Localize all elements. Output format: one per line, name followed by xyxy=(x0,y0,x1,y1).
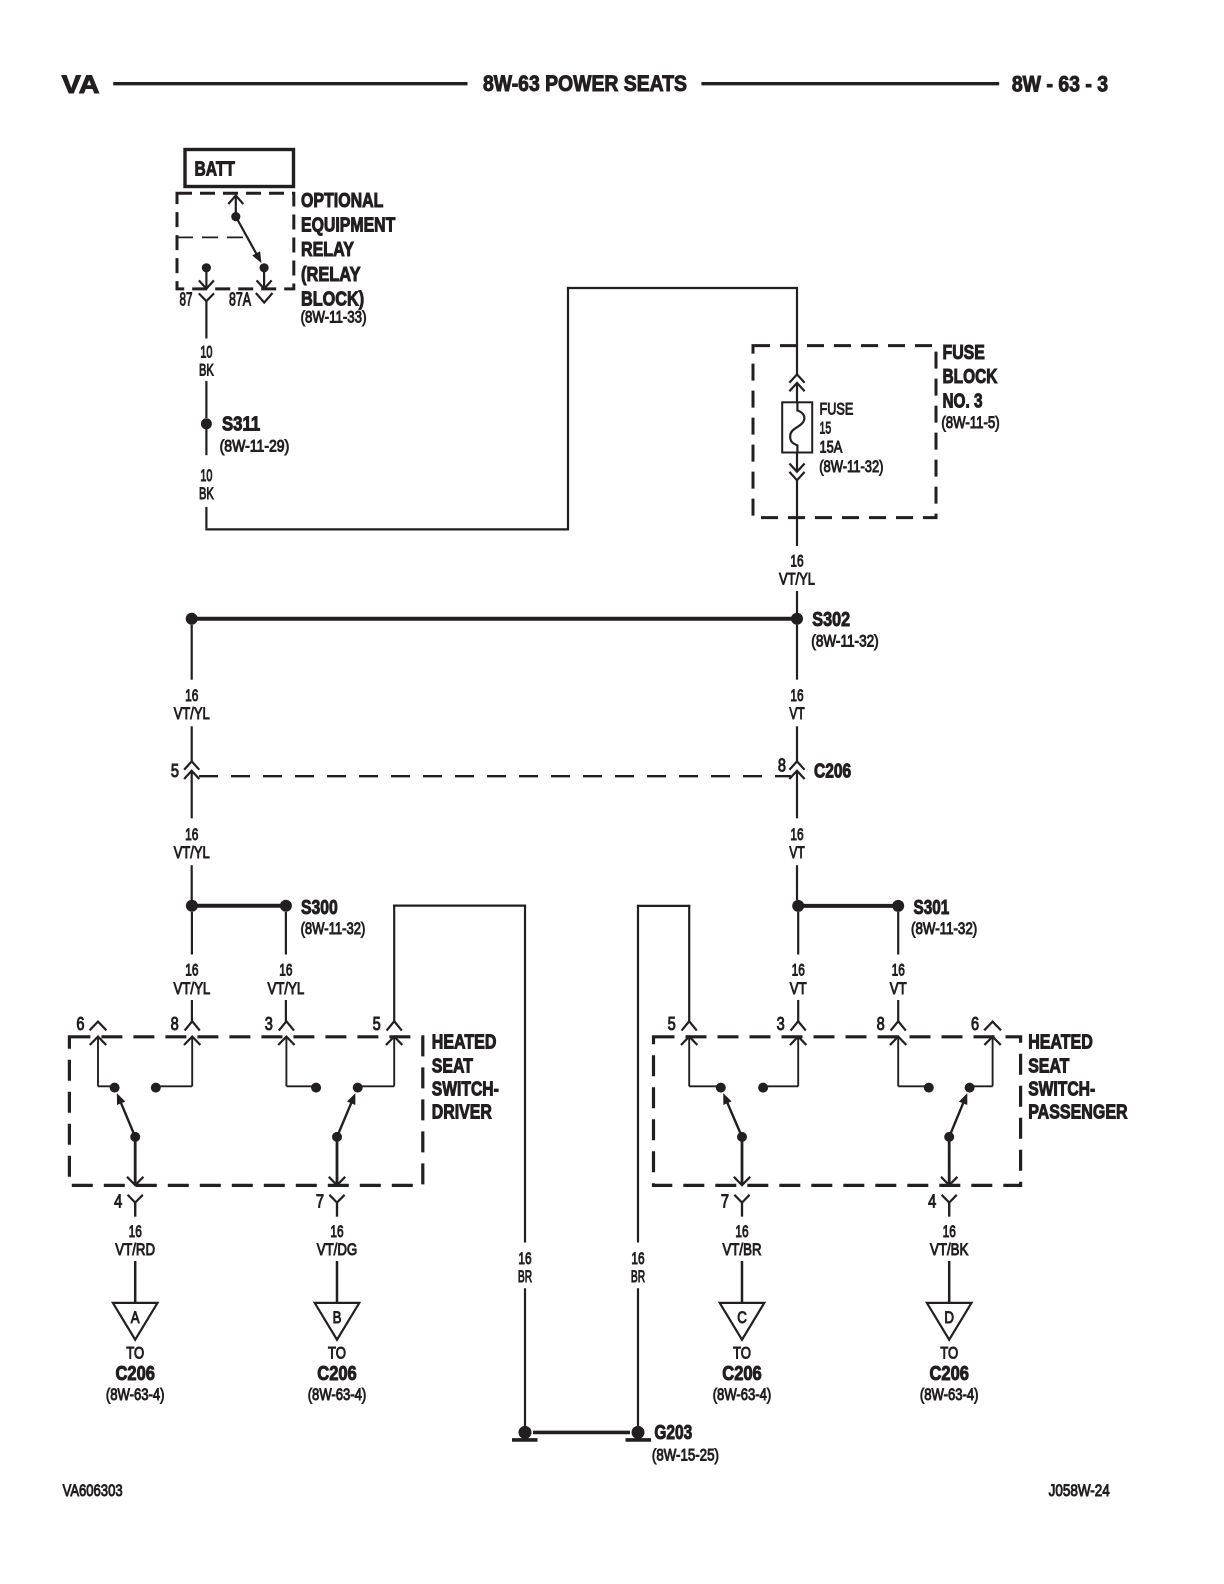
driver left switch pole dot xyxy=(130,1132,140,1142)
wire 10 BK upper segment xyxy=(205,314,207,339)
fuse F15 labels xyxy=(819,399,883,476)
svg-text:16: 16 xyxy=(790,825,803,844)
ground G203 right bar xyxy=(626,1438,652,1442)
pin 4 connector (passenger switch output B) xyxy=(941,1177,957,1217)
svg-text:VT: VT xyxy=(789,704,804,723)
passenger left switch wiper arm xyxy=(723,1093,742,1137)
ground G203 left dot xyxy=(519,1426,532,1439)
passenger right switch contact dot B xyxy=(965,1083,975,1093)
driver right switch output stem xyxy=(358,1037,395,1087)
svg-text:(8W-63-4): (8W-63-4) xyxy=(713,1385,772,1404)
svg-text:(8W-11-32): (8W-11-32) xyxy=(301,919,366,938)
svg-text:VT/YL: VT/YL xyxy=(174,704,210,723)
wire label 10 BK (upper) xyxy=(199,342,214,379)
svg-text:(RELAY: (RELAY xyxy=(301,264,361,286)
heated seat switch driver box (dashed outline) xyxy=(69,1037,422,1186)
pin 8 connector (passenger switch) xyxy=(890,1021,906,1045)
svg-text:8: 8 xyxy=(778,756,786,776)
wire label 16 BR (right) xyxy=(631,1249,645,1286)
svg-text:RELAY: RELAY xyxy=(301,239,354,261)
off-page triangle C xyxy=(720,1303,765,1340)
svg-text:C206: C206 xyxy=(930,1363,969,1385)
svg-text:VT/BR: VT/BR xyxy=(722,1240,761,1259)
driver left switch wiper arm xyxy=(117,1093,135,1137)
svg-text:DRIVER: DRIVER xyxy=(432,1101,492,1123)
fuse F15 body xyxy=(782,402,812,452)
fuse output connector chevrons xyxy=(789,464,804,481)
ground G203 left bar xyxy=(512,1438,538,1442)
passenger right switch input stem xyxy=(898,1037,929,1087)
svg-text:HEATED: HEATED xyxy=(432,1032,497,1054)
label TO C206 (driver pin 7) xyxy=(308,1344,367,1405)
svg-text:8W-63 POWER SEATS: 8W-63 POWER SEATS xyxy=(483,71,687,96)
svg-text:J058W-24: J058W-24 xyxy=(1049,1481,1110,1500)
svg-text:D: D xyxy=(944,1308,954,1327)
svg-text:C206: C206 xyxy=(814,760,851,782)
svg-text:7: 7 xyxy=(721,1192,729,1212)
wire label 16 VT/YL (driver pin 8 feed) xyxy=(174,961,211,998)
S302 dot left xyxy=(186,613,198,625)
C206 right chevrons pin 8 xyxy=(789,761,804,779)
passenger left switch pole stem to pin xyxy=(741,1141,744,1184)
svg-text:BR: BR xyxy=(518,1267,532,1286)
header rule left xyxy=(113,82,467,85)
svg-text:SWITCH-: SWITCH- xyxy=(1028,1079,1095,1101)
svg-text:5: 5 xyxy=(668,1014,676,1034)
driver right switch contact dot B xyxy=(353,1083,363,1093)
svg-text:16: 16 xyxy=(330,1222,343,1241)
svg-text:7: 7 xyxy=(316,1192,324,1212)
off-page triangle B xyxy=(315,1303,360,1340)
driver left switch output stem xyxy=(156,1037,192,1087)
relay switch arm xyxy=(236,217,262,263)
svg-text:10: 10 xyxy=(200,342,212,361)
S301 dot right xyxy=(892,900,904,912)
relay coil divider (dashed) xyxy=(177,236,247,238)
wire label 16 VT/BR (passenger pin 7) xyxy=(722,1222,761,1259)
svg-text:OPTIONAL: OPTIONAL xyxy=(301,190,383,212)
svg-text:G203: G203 xyxy=(654,1422,692,1444)
svg-text:3: 3 xyxy=(777,1014,785,1034)
wire into connector (driver pin 8 feed) xyxy=(191,1000,193,1021)
svg-text:S300: S300 xyxy=(301,897,338,919)
wire into triangle (driver pin 7) xyxy=(336,1261,339,1303)
wire below splice at x=798.2 (passenger pin 3 feed) xyxy=(797,912,799,955)
svg-text:16: 16 xyxy=(792,961,805,980)
svg-text:4: 4 xyxy=(928,1192,936,1212)
driver left switch contact dot A xyxy=(110,1083,120,1093)
svg-text:VT: VT xyxy=(890,979,907,998)
svg-text:(8W-11-32): (8W-11-32) xyxy=(911,919,977,938)
svg-text:FUSE: FUSE xyxy=(943,342,985,364)
svg-text:TO: TO xyxy=(126,1344,144,1363)
relay box (dashed outline) xyxy=(177,193,294,289)
wire label 16 VT/YL (left above C206) xyxy=(174,686,210,723)
svg-text:87: 87 xyxy=(180,290,193,310)
heated seat switch passenger box (dashed outline) xyxy=(654,1037,1021,1186)
svg-text:(8W-15-25): (8W-15-25) xyxy=(652,1445,719,1464)
wire into S301 xyxy=(796,865,798,900)
ground G203 right dot xyxy=(632,1426,645,1439)
wire C206 to label left xyxy=(191,771,193,819)
svg-text:BLOCK: BLOCK xyxy=(943,366,998,388)
svg-text:VA606303: VA606303 xyxy=(63,1481,123,1500)
wire into C206 right xyxy=(796,726,798,761)
wire into triangle (passenger pin 4) xyxy=(948,1261,951,1303)
driver left switch contact dot B xyxy=(151,1083,161,1093)
svg-text:VA: VA xyxy=(62,71,100,99)
label TO C206 (passenger pin 4) xyxy=(920,1344,979,1405)
svg-text:PASSENGER: PASSENGER xyxy=(1028,1101,1128,1123)
passenger left switch contact dot A xyxy=(716,1083,726,1093)
wire into S302 xyxy=(796,591,798,613)
wire 16 BR left to ground xyxy=(524,1288,526,1427)
C206 left chevrons pin 5 xyxy=(184,761,199,779)
wire label 16 VT (right above C206) xyxy=(789,686,804,723)
driver right switch pole dot xyxy=(332,1132,342,1142)
S300 dot right xyxy=(280,900,292,912)
passenger right switch pole dot xyxy=(944,1132,954,1142)
svg-text:15: 15 xyxy=(820,418,832,437)
svg-text:VT/YL: VT/YL xyxy=(174,843,210,862)
C206 dashed connector line xyxy=(199,775,791,777)
passenger right switch pole stem to pin xyxy=(948,1141,951,1184)
svg-text:S301: S301 xyxy=(914,897,950,919)
relay pin 87A connector fork xyxy=(256,293,273,303)
wire into triangle (driver pin 4) xyxy=(134,1261,137,1303)
svg-text:C206: C206 xyxy=(722,1363,761,1385)
fuse block box (dashed outline) xyxy=(753,346,936,518)
wire into S300 xyxy=(191,865,193,900)
off-page triangle A xyxy=(113,1303,158,1340)
wire into S311 xyxy=(205,381,207,418)
heated seat switch driver label xyxy=(432,1032,499,1124)
relay pin 87 stem and arrow xyxy=(199,268,214,289)
svg-text:C206: C206 xyxy=(317,1363,356,1385)
svg-text:16: 16 xyxy=(790,686,803,705)
fuse block label xyxy=(941,342,999,432)
svg-text:A: A xyxy=(131,1308,140,1327)
svg-text:16: 16 xyxy=(892,961,905,980)
svg-text:16: 16 xyxy=(185,961,198,980)
svg-text:87A: 87A xyxy=(229,290,251,310)
header rule right xyxy=(701,82,999,85)
wire label 16 VT/YL (driver pin 3 feed) xyxy=(268,961,305,998)
svg-text:S311: S311 xyxy=(222,414,260,436)
wire below splice at x=285.9 (driver pin 3 feed) xyxy=(285,912,287,955)
svg-text:(8W-63-4): (8W-63-4) xyxy=(920,1385,979,1404)
wire run to fuse block xyxy=(205,287,797,531)
svg-text:FUSE: FUSE xyxy=(820,399,854,418)
wire below pin (driver pin 7) xyxy=(336,1203,338,1217)
svg-text:VT/YL: VT/YL xyxy=(268,979,305,998)
svg-text:BR: BR xyxy=(631,1267,645,1286)
driver right switch input stem xyxy=(286,1037,316,1087)
svg-text:BATT: BATT xyxy=(195,159,235,181)
passenger right switch output stem xyxy=(970,1037,993,1087)
driver right switch contact dot A xyxy=(311,1083,321,1093)
fuse input connector chevrons xyxy=(789,374,804,391)
splice S300 bus xyxy=(192,904,286,908)
wire label 16 VT/YL (left below C206) xyxy=(174,825,210,862)
pin 5 connector (driver switch) xyxy=(386,1021,402,1045)
driver left switch pole stem to pin xyxy=(134,1141,137,1184)
wire into triangle (passenger pin 7) xyxy=(741,1261,744,1303)
wire into connector (passenger pin 8 feed) xyxy=(897,1000,899,1021)
relay contact dot 87A side xyxy=(260,263,269,272)
svg-text:TO: TO xyxy=(733,1344,751,1363)
ground G203 bus xyxy=(533,1431,630,1435)
relay block description text xyxy=(301,190,396,327)
wire C206 to label right xyxy=(796,771,798,819)
label TO C206 (passenger pin 7) xyxy=(713,1344,772,1405)
svg-text:VT/DG: VT/DG xyxy=(317,1240,358,1259)
svg-text:8: 8 xyxy=(877,1014,885,1034)
svg-text:16: 16 xyxy=(185,825,198,844)
pin 7 connector (driver switch output B) xyxy=(329,1177,345,1217)
svg-text:VT/RD: VT/RD xyxy=(115,1240,155,1259)
svg-text:(8W-11-32): (8W-11-32) xyxy=(811,632,878,651)
wire label 16 VT (right below C206) xyxy=(789,825,804,862)
passenger left switch output stem xyxy=(763,1037,798,1087)
wire label 10 BK (lower) xyxy=(199,466,214,503)
svg-text:SEAT: SEAT xyxy=(1028,1055,1069,1077)
svg-text:10: 10 xyxy=(200,466,212,485)
svg-text:8: 8 xyxy=(171,1014,179,1034)
S300 dot left xyxy=(186,900,198,912)
wire 16 BR right to ground xyxy=(637,1288,639,1427)
svg-text:4: 4 xyxy=(114,1192,122,1212)
svg-text:16: 16 xyxy=(943,1222,956,1241)
wire fuse to output connector xyxy=(796,453,798,472)
wire 10 BK bottom segment xyxy=(205,507,207,528)
pin 6 connector (driver switch) xyxy=(90,1022,107,1045)
svg-text:TO: TO xyxy=(940,1344,958,1363)
pin 7 connector (passenger switch output A) xyxy=(734,1177,750,1217)
relay common dot (pin 30) xyxy=(231,212,240,221)
svg-text:VT/YL: VT/YL xyxy=(174,979,211,998)
svg-text:VT: VT xyxy=(789,843,804,862)
wire label 16 VT (passenger pin 3 feed) xyxy=(790,961,807,998)
svg-text:SWITCH-: SWITCH- xyxy=(432,1079,499,1101)
svg-text:16: 16 xyxy=(185,686,198,705)
splice S311 dot xyxy=(201,418,212,429)
svg-text:16: 16 xyxy=(129,1222,142,1241)
svg-text:(8W-11-33): (8W-11-33) xyxy=(301,308,367,327)
wire into C206 left xyxy=(191,726,193,761)
svg-text:6: 6 xyxy=(76,1014,84,1034)
svg-text:15A: 15A xyxy=(820,438,843,457)
wire label 16 VT/YL (fuse output) xyxy=(779,551,815,588)
svg-text:5: 5 xyxy=(171,761,179,781)
svg-text:BK: BK xyxy=(199,484,214,503)
wire below S302 right xyxy=(796,625,798,680)
svg-text:C206: C206 xyxy=(116,1363,155,1385)
svg-text:16: 16 xyxy=(735,1222,748,1241)
wire into connector (driver pin 3 feed) xyxy=(285,1000,287,1021)
wire label 16 VT (passenger pin 8 feed) xyxy=(890,961,907,998)
wire driver pin 5 to ground run xyxy=(393,905,526,1243)
pin 4 connector (driver switch output A) xyxy=(127,1177,143,1217)
svg-text:EQUIPMENT: EQUIPMENT xyxy=(301,215,395,237)
power source box BATT xyxy=(185,150,294,187)
relay pin 30 arrow to BATT xyxy=(228,196,243,217)
svg-text:(8W-63-4): (8W-63-4) xyxy=(308,1385,367,1404)
wire into fuse connector xyxy=(796,346,798,375)
splice S302 bus xyxy=(197,617,792,621)
svg-text:S302: S302 xyxy=(812,609,850,631)
wire label 16 VT/RD (driver pin 4) xyxy=(115,1222,155,1259)
wire below pin (passenger pin 7) xyxy=(741,1203,743,1217)
wire out of fuse block xyxy=(796,480,798,546)
svg-text:16: 16 xyxy=(518,1249,531,1268)
splice S301 bus xyxy=(798,904,898,908)
passenger left switch input stem xyxy=(689,1037,721,1087)
relay contact dot 87 side xyxy=(202,263,211,272)
pin 8 connector (driver switch) xyxy=(184,1021,200,1045)
svg-text:(8W-11-5): (8W-11-5) xyxy=(941,413,999,432)
wire label 16 VT/DG (driver pin 7) xyxy=(317,1222,358,1259)
S302 dot right xyxy=(791,613,803,625)
wire below S311 xyxy=(205,429,207,455)
wire label 16 BR (left) xyxy=(518,1249,532,1286)
relay pin 87A stem and arrow xyxy=(257,268,272,289)
svg-text:16: 16 xyxy=(790,551,803,570)
svg-text:16: 16 xyxy=(279,961,292,980)
svg-text:NO. 3: NO. 3 xyxy=(943,391,983,413)
heated seat switch passenger label xyxy=(1028,1032,1128,1124)
pin 5 connector (passenger switch) xyxy=(681,1021,697,1045)
svg-text:C: C xyxy=(737,1308,747,1327)
off-page triangle D xyxy=(927,1303,972,1340)
svg-text:VT/YL: VT/YL xyxy=(779,570,815,589)
svg-text:VT/BK: VT/BK xyxy=(930,1240,969,1259)
label TO C206 (driver pin 4) xyxy=(106,1344,165,1405)
svg-text:BK: BK xyxy=(199,361,214,380)
wire chevron to fuse xyxy=(796,384,798,403)
wire below pin (passenger pin 4) xyxy=(948,1203,950,1217)
driver left switch input stem xyxy=(98,1037,115,1087)
wire below S302 left xyxy=(191,625,193,680)
svg-text:HEATED: HEATED xyxy=(1028,1032,1093,1054)
svg-text:VT: VT xyxy=(790,979,807,998)
svg-text:3: 3 xyxy=(265,1014,273,1034)
svg-text:B: B xyxy=(333,1308,342,1327)
pin 6 connector (passenger switch) xyxy=(984,1022,1001,1045)
driver right switch pole stem to pin xyxy=(336,1141,339,1184)
wire below splice at x=191.9 (driver pin 8 feed) xyxy=(191,912,193,955)
svg-text:TO: TO xyxy=(328,1344,346,1363)
relay pin 87 connector fork xyxy=(199,293,214,313)
svg-text:(8W-11-29): (8W-11-29) xyxy=(220,437,290,456)
svg-text:16: 16 xyxy=(631,1249,644,1268)
svg-text:(8W-11-32): (8W-11-32) xyxy=(819,457,883,476)
wire below splice at x=898.2 (passenger pin 8 feed) xyxy=(897,912,899,955)
svg-text:8W - 63 - 3: 8W - 63 - 3 xyxy=(1012,72,1108,97)
pin 3 connector (driver switch) xyxy=(278,1021,294,1045)
pin 3 connector (passenger switch) xyxy=(790,1021,806,1045)
wire below pin (driver pin 4) xyxy=(134,1203,136,1217)
S301 dot left xyxy=(792,900,804,912)
passenger right switch wiper arm xyxy=(949,1093,967,1137)
svg-text:5: 5 xyxy=(373,1014,381,1034)
svg-text:6: 6 xyxy=(971,1014,979,1034)
driver right switch wiper arm xyxy=(337,1093,355,1137)
wire passenger pin 5 to ground run xyxy=(637,905,690,1243)
svg-text:SEAT: SEAT xyxy=(432,1055,473,1077)
wire label 16 VT/BK (passenger pin 4) xyxy=(930,1222,969,1259)
passenger right switch contact dot A xyxy=(924,1083,934,1093)
svg-text:(8W-63-4): (8W-63-4) xyxy=(106,1385,165,1404)
wire into connector (passenger pin 3 feed) xyxy=(797,1000,799,1021)
passenger left switch contact dot B xyxy=(758,1083,768,1093)
passenger left switch pole dot xyxy=(737,1132,747,1142)
